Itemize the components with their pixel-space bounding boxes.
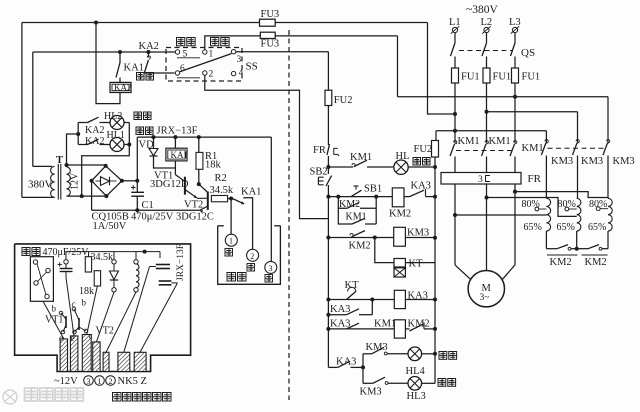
svg-text:FU2: FU2 (414, 144, 433, 155)
svg-text:KM2: KM2 (585, 257, 607, 268)
svg-text:6: 6 (180, 64, 185, 74)
svg-text:4: 4 (239, 69, 244, 79)
svg-text:KM2: KM2 (339, 199, 360, 210)
svg-text:KM2: KM2 (389, 209, 411, 220)
svg-text:KA3: KA3 (411, 181, 431, 192)
svg-text:1: 1 (209, 50, 214, 60)
svg-text:KA2: KA2 (85, 136, 104, 147)
svg-text:3: 3 (87, 377, 91, 386)
svg-text:JRX−13F: JRX−13F (176, 244, 186, 281)
svg-text:1A/50V: 1A/50V (93, 221, 127, 232)
svg-text:KA1: KA1 (241, 187, 261, 198)
svg-text:NK5 Z: NK5 Z (118, 376, 147, 387)
svg-text:C1: C1 (142, 200, 154, 211)
svg-text:b: b (52, 304, 57, 314)
svg-text:SB2: SB2 (310, 166, 328, 177)
svg-text:3: 3 (269, 264, 273, 273)
svg-text:HL: HL (396, 151, 410, 162)
svg-text:VT2: VT2 (184, 200, 203, 211)
svg-text:~12V: ~12V (54, 376, 78, 387)
svg-text:34.5k: 34.5k (91, 252, 114, 263)
svg-text:3~: 3~ (480, 293, 490, 303)
svg-text:KM3: KM3 (613, 156, 635, 167)
svg-text:80%: 80% (558, 199, 576, 210)
svg-text:FU3: FU3 (261, 39, 280, 50)
svg-text:KA2: KA2 (139, 41, 159, 52)
svg-text:FR: FR (313, 145, 326, 156)
svg-text:KM2: KM2 (550, 257, 572, 268)
svg-text:VT2: VT2 (96, 326, 114, 337)
svg-text:18k: 18k (79, 286, 94, 297)
svg-text:FU3: FU3 (261, 9, 280, 20)
svg-text:KM3: KM3 (360, 386, 382, 397)
svg-text:KM1: KM1 (458, 136, 480, 147)
svg-text:HL4: HL4 (406, 366, 426, 377)
svg-text:470μ/25V: 470μ/25V (131, 212, 174, 223)
svg-text:SB1: SB1 (364, 184, 382, 195)
svg-text:3: 3 (478, 175, 483, 185)
svg-text:380V: 380V (28, 179, 53, 191)
svg-text:2: 2 (109, 377, 113, 386)
svg-text:HL2: HL2 (104, 111, 122, 122)
svg-text:KA3: KA3 (330, 304, 350, 315)
svg-text:KM3: KM3 (366, 342, 388, 353)
svg-text:JRX−13F: JRX−13F (157, 126, 198, 137)
svg-text:SS: SS (246, 61, 258, 73)
svg-text:VD: VD (139, 140, 155, 151)
svg-text:QS: QS (521, 47, 535, 59)
svg-text:KM3: KM3 (581, 156, 603, 167)
svg-text:KM1: KM1 (522, 143, 544, 154)
svg-text:KM3: KM3 (551, 156, 573, 167)
svg-text:KM1: KM1 (350, 152, 372, 163)
svg-text:KM1: KM1 (489, 136, 511, 147)
svg-text:KM1: KM1 (346, 211, 367, 222)
svg-text:FR: FR (528, 173, 542, 185)
svg-text:KA3: KA3 (336, 357, 356, 368)
svg-text:80%: 80% (522, 199, 540, 210)
svg-text:KA3: KA3 (330, 318, 350, 329)
svg-text:KT: KT (409, 259, 424, 270)
svg-text:c: c (89, 331, 93, 341)
svg-text:3DG12C: 3DG12C (176, 212, 214, 223)
svg-text:KT: KT (345, 280, 360, 291)
svg-text:FU2: FU2 (334, 95, 353, 106)
svg-text:3DG12D: 3DG12D (150, 179, 189, 190)
svg-text:R2: R2 (215, 173, 227, 184)
svg-text:65%: 65% (524, 222, 542, 233)
svg-text:b: b (82, 298, 87, 308)
svg-text:3: 3 (237, 55, 242, 65)
svg-text:T: T (56, 155, 63, 166)
svg-text:12V: 12V (70, 172, 81, 190)
svg-text:KA1: KA1 (124, 63, 144, 74)
svg-text:2: 2 (209, 70, 214, 80)
svg-text:KM3: KM3 (407, 228, 429, 239)
svg-text:1: 1 (229, 237, 233, 246)
svg-text:2: 2 (250, 252, 254, 261)
svg-text:80%: 80% (589, 199, 607, 210)
svg-text:KM2: KM2 (408, 318, 430, 329)
svg-text:HL1: HL1 (107, 130, 125, 141)
svg-text:65%: 65% (557, 222, 575, 233)
svg-text:KA2: KA2 (114, 83, 132, 93)
svg-text:1: 1 (98, 377, 102, 386)
svg-text:65%: 65% (588, 222, 606, 233)
svg-text:18k: 18k (205, 160, 222, 171)
svg-text:KA2: KA2 (85, 125, 104, 136)
svg-text:VT1: VT1 (45, 315, 63, 326)
svg-text:FU1: FU1 (461, 72, 480, 83)
svg-text:KM2: KM2 (349, 241, 371, 252)
svg-text:HL3: HL3 (407, 391, 426, 402)
svg-text:KM1: KM1 (374, 318, 396, 329)
svg-text:KA1: KA1 (171, 150, 189, 160)
svg-text:5: 5 (183, 50, 188, 60)
svg-text:~380V: ~380V (466, 4, 498, 16)
svg-text:34.5k: 34.5k (210, 185, 234, 196)
svg-text:FU1: FU1 (522, 72, 541, 83)
svg-text:FU1: FU1 (493, 72, 512, 83)
